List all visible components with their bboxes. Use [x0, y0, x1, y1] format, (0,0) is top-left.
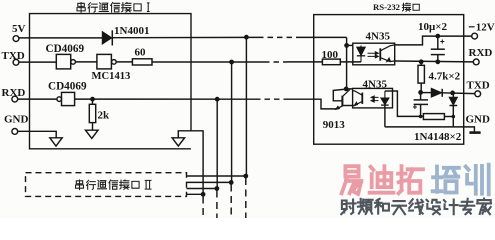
resistor R 60: [132, 59, 152, 65]
ground below 2k: [86, 130, 99, 138]
wire U2 to R60: [116, 61, 132, 63]
U5 phototransistor: [361, 93, 363, 104]
wire TXD dashed: [264, 61, 287, 63]
title serial-interface-II: [76, 180, 84, 190]
resistor R 2k: [92, 99, 94, 104]
capacitor C2 10u: [420, 92, 422, 100]
U5 light arrows: [371, 97, 379, 100]
svg-text:4N35: 4N35: [366, 30, 391, 42]
ground 3: [172, 138, 185, 146]
terminal TXD: [13, 59, 19, 65]
diode D1 1N4148: [431, 88, 441, 97]
svg-text:10μ×2: 10μ×2: [418, 21, 448, 33]
wire 9013 emitter out: [314, 99, 337, 109]
wire GND: [18, 131, 57, 138]
watermark di2: [370, 166, 394, 193]
wire TXD to gate: [19, 61, 56, 63]
wire GND right segment: [178, 131, 203, 195]
terminal 5V: [13, 36, 19, 42]
watermark pei: [433, 167, 459, 193]
node D2 lead junction: [452, 115, 456, 119]
wire U1 to U2: [75, 61, 97, 63]
inverter U2 MC1413: [97, 54, 112, 69]
svg-text:4.7k×2: 4.7k×2: [429, 71, 461, 83]
wire 5V corner down: [346, 37, 348, 89]
svg-text:RS-232: RS-232: [373, 2, 400, 12]
wire TXD right 1: [421, 92, 432, 94]
node 4N35 anode junction: [344, 43, 349, 48]
wire bus TXD vertical: [231, 62, 233, 182]
wire bus RXD dashed tail: [216, 191, 218, 219]
svg-text:12V: 12V: [476, 21, 495, 33]
wire TXD to R100: [287, 61, 322, 63]
svg-text:4N35: 4N35: [363, 78, 388, 90]
watermark tuo: [398, 166, 423, 193]
diode D2 1N4148: [452, 93, 454, 97]
wire U5 emitter to 9013: [343, 105, 352, 107]
terminal RXD: [12, 96, 18, 102]
ground bar right: [469, 131, 480, 134]
terminal TXD right: [475, 91, 481, 97]
wire LED anode loop: [393, 91, 424, 116]
svg-text:MC1413: MC1413: [92, 71, 131, 82]
serial interface II box: [26, 173, 187, 197]
wire stub II-TXD: [187, 181, 232, 183]
wire stub II-GND: [187, 193, 204, 195]
svg-text:CD4069: CD4069: [46, 43, 85, 55]
svg-text:1N4001: 1N4001: [114, 25, 149, 37]
svg-text:9013: 9013: [323, 119, 346, 131]
svg-text:1N4148×2: 1N4148×2: [414, 131, 462, 143]
svg-text:5V: 5V: [12, 23, 26, 35]
node 9013 base junction: [344, 87, 349, 92]
U4 phototransistor: [379, 48, 381, 60]
node cap1 junction: [435, 34, 440, 39]
wire R to D2 lead: [444, 116, 453, 118]
wire RXD dashed: [255, 98, 288, 100]
ground 1: [50, 138, 62, 146]
wire bus GND dashed tail: [202, 197, 204, 219]
terminal GND: [12, 129, 18, 135]
U4 LED: [360, 45, 362, 62]
wire U4 emitter RXD: [395, 60, 474, 63]
wire RXD to RS232 box: [288, 98, 314, 100]
node bus GND bottom: [201, 192, 206, 197]
terminal -12V: [472, 33, 478, 39]
watermark yi: [342, 166, 362, 194]
diode D 1N4001: [102, 32, 111, 44]
watermark slogan: [341, 200, 355, 215]
transistor Q1 9013: [341, 96, 343, 107]
node D2 junction: [450, 91, 455, 96]
resistor R 4.7k horizontal: [423, 114, 444, 120]
title serial-interface-I: [77, 3, 85, 13]
node 2k junction: [90, 97, 95, 102]
svg-text:GND: GND: [4, 114, 29, 126]
wire 9013 base feed: [333, 89, 352, 101]
inverter U1 CD4069: [56, 54, 70, 69]
terminal RXD right: [473, 59, 479, 65]
wire R100 to U4: [340, 61, 361, 63]
node TXD bus junction: [229, 60, 234, 65]
optocoupler U4 4N35 box: [353, 43, 395, 65]
node 5V bus junction: [244, 35, 249, 40]
svg-text:TXD: TXD: [467, 80, 490, 92]
node bus 5V bottom: [243, 174, 248, 179]
watermark xun: [466, 165, 489, 195]
wire stub II-RXD: [187, 188, 217, 190]
node cap1 bottom junction: [435, 59, 440, 64]
svg-text:2k: 2k: [98, 110, 111, 122]
wire to U4 anode pin: [347, 44, 353, 46]
optocoupler U5 4N35 box: [353, 88, 393, 108]
wire 5V left: [19, 37, 103, 39]
wire 5V dashed: [258, 36, 301, 38]
wire RXD to bubble: [18, 98, 57, 100]
resistor R 100: [322, 59, 340, 65]
wire bus 5V vertical: [245, 37, 247, 176]
wire U5 anode out: [385, 90, 393, 92]
svg-text:CD4069: CD4069: [48, 80, 87, 92]
node loop junction: [419, 115, 423, 119]
wire U3 out: [75, 98, 255, 100]
RS-232 interface box: [314, 15, 464, 145]
wire bottom rail: [385, 127, 475, 132]
serial interface I box: [30, 14, 192, 149]
svg-text:GND: GND: [466, 114, 491, 126]
resistor R 4.7k: [420, 62, 422, 66]
U5 LED: [384, 91, 386, 98]
wire TXD mid: [152, 61, 264, 63]
inverter U3 CD4069: [57, 97, 62, 102]
wire 5V into RS232 box: [301, 36, 347, 38]
wire bus TXD dashed tail: [230, 185, 232, 219]
node bus TXD bottom: [229, 180, 234, 185]
capacitor C1 10u: [437, 36, 439, 49]
svg-text:60: 60: [135, 47, 147, 59]
node RXD bus junction: [215, 97, 220, 102]
node bus RXD bottom: [215, 186, 220, 191]
wire TXD right 2: [442, 92, 475, 95]
node cap2 top junction: [418, 90, 423, 95]
svg-text:RXD: RXD: [469, 47, 493, 59]
wire U4 collector: [395, 36, 472, 45]
wire stub II-5V: [187, 175, 246, 177]
wire bus RXD vertical: [216, 99, 218, 188]
wire bus 5V dashed tail: [245, 178, 247, 218]
node 4.7k top junction: [419, 59, 424, 64]
wire 5V mid: [112, 36, 258, 38]
U4 light arrows: [368, 53, 376, 56]
